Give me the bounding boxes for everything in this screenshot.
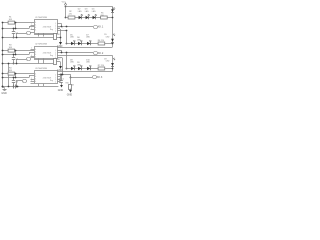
svg-text:R10: R10 xyxy=(66,82,69,84)
ground sym R10 xyxy=(69,90,72,93)
resistor R6 row2 xyxy=(98,42,105,45)
wire row3 xyxy=(66,68,113,70)
svg-text:10K: 10K xyxy=(9,70,13,72)
wire left bus xyxy=(2,23,4,88)
ground arrow 1 xyxy=(60,29,62,42)
svg-text:LED: LED xyxy=(86,37,90,39)
wire rail feed from U2 xyxy=(57,55,112,57)
svg-text:15: 15 xyxy=(58,28,60,30)
svg-text:LED: LED xyxy=(92,11,96,13)
svg-text:GND: GND xyxy=(1,92,7,95)
svg-text:1: 1 xyxy=(63,28,64,30)
IC U2 box xyxy=(35,47,58,59)
svg-text:4K7: 4K7 xyxy=(57,59,60,61)
svg-text:LED: LED xyxy=(106,61,110,63)
wire U1 vert x66 xyxy=(66,31,68,43)
svg-text:a: a xyxy=(23,81,24,83)
pin U3 QC xyxy=(57,79,60,81)
capacitor C1 xyxy=(13,28,15,31)
svg-text:Q: Q xyxy=(55,28,56,30)
svg-text:U2 74HC595N: U2 74HC595N xyxy=(35,44,47,46)
ground main xyxy=(3,89,7,91)
pin U2 QA xyxy=(57,50,61,52)
svg-text:Q: Q xyxy=(55,79,56,81)
wire R8 top xyxy=(34,34,54,36)
svg-text:LED: LED xyxy=(78,11,82,13)
pin U1 QA xyxy=(57,23,61,25)
svg-text:LED: LED xyxy=(106,36,110,38)
svg-text:220: 220 xyxy=(101,15,104,17)
net flag left 2 xyxy=(16,59,18,63)
pin U1 GND stubs xyxy=(38,33,40,37)
svg-text:Q: Q xyxy=(55,52,56,54)
wire mid row 2 xyxy=(2,54,30,56)
svg-text:LED: LED xyxy=(70,62,74,64)
wire rail return to U3 xyxy=(57,71,112,73)
svg-text:10K: 10K xyxy=(9,19,13,21)
wire gnd row 1 xyxy=(2,37,54,39)
svg-text:GND: GND xyxy=(67,93,73,96)
LED D6 row2 xyxy=(78,42,81,45)
svg-text:Reg: Reg xyxy=(50,55,53,57)
IC U3 box xyxy=(35,71,58,84)
net flag row2 xyxy=(94,52,98,55)
pin U1 QC xyxy=(57,28,60,30)
wire mid row 1 xyxy=(2,28,30,30)
svg-text:Reg: Reg xyxy=(50,80,53,82)
node row3 left xyxy=(66,68,68,70)
node row2 left xyxy=(66,43,68,45)
svg-text:LED: LED xyxy=(70,37,74,39)
wire gnd row 2 xyxy=(2,63,54,65)
svg-text:LED: LED xyxy=(77,64,81,66)
left stubs 1 xyxy=(31,25,35,27)
svg-text:R7 220: R7 220 xyxy=(98,65,104,67)
capacitor C3 xyxy=(13,77,15,80)
wire gnd row 3 xyxy=(2,86,58,88)
svg-text:GND: GND xyxy=(57,45,63,48)
IC U1 box xyxy=(35,20,58,34)
ground sym cap xyxy=(60,85,63,88)
pin U2 QC xyxy=(57,61,61,63)
svg-text:Q: Q xyxy=(55,77,56,79)
svg-text:Reg: Reg xyxy=(50,29,53,31)
wire bus to gnd xyxy=(3,87,5,89)
pin U1 QD xyxy=(57,30,66,32)
svg-text:4 Bit Shift: 4 Bit Shift xyxy=(43,26,52,29)
svg-text:LED: LED xyxy=(86,62,90,64)
wire row1 xyxy=(66,17,113,19)
node VCC junction xyxy=(65,6,67,8)
svg-text:GND: GND xyxy=(57,69,63,72)
LED D7 row2 xyxy=(87,42,90,45)
pin U2 QB wire to flag xyxy=(57,52,93,54)
svg-text:220: 220 xyxy=(69,14,72,16)
node row1 left xyxy=(65,17,67,19)
svg-text:a: a xyxy=(27,59,28,61)
node row3 right xyxy=(112,68,114,70)
wire rail return to U2 xyxy=(57,47,112,49)
resistor R2 row1 xyxy=(68,16,75,19)
svg-text:XK.2: XK.2 xyxy=(98,52,104,55)
diode D11 rail row2 xyxy=(111,39,114,42)
svg-text:Q: Q xyxy=(55,82,56,84)
node row2 right xyxy=(112,43,114,45)
left stubs 3 xyxy=(31,79,35,81)
wire R8 out xyxy=(57,37,61,39)
diode D12 rail row3 xyxy=(111,63,114,66)
node row1 right xyxy=(112,17,114,19)
pin U3 QD xyxy=(57,81,60,83)
pin U2 GND stubs xyxy=(38,58,40,63)
ground arrow 2 xyxy=(60,62,62,67)
net flag left 1 xyxy=(16,33,18,37)
resistor R9 vertical xyxy=(54,59,57,65)
pin U1 QB wire to flag xyxy=(57,26,93,28)
svg-text:Q: Q xyxy=(55,23,56,25)
svg-text:4K7: 4K7 xyxy=(57,34,60,36)
svg-text:R2: R2 xyxy=(69,11,71,13)
capacitor C2 xyxy=(13,54,15,57)
svg-text:U1 74HC595N: U1 74HC595N xyxy=(35,17,47,19)
svg-text:XK.3: XK.3 xyxy=(97,76,103,79)
node bus gnd-bus xyxy=(8,63,10,65)
svg-text:LED: LED xyxy=(77,39,81,41)
pin U3 QA wire xyxy=(57,74,70,76)
svg-text:U3 74HC595N: U3 74HC595N xyxy=(35,68,47,70)
wire top rail xyxy=(66,6,113,8)
svg-text:Q: Q xyxy=(55,30,56,32)
diode D10 top right xyxy=(111,9,114,12)
pin U2 QD xyxy=(57,57,62,59)
wire mid row 3 xyxy=(2,77,30,79)
pin U3 QB xyxy=(57,76,60,78)
wire right rail upper xyxy=(112,7,114,48)
LED D2 row1 xyxy=(79,16,82,19)
resistor R8 vertical xyxy=(54,34,57,40)
svg-text:a: a xyxy=(27,33,28,35)
svg-text:10K: 10K xyxy=(9,47,13,49)
capacitor C8 series bottom row xyxy=(13,85,15,89)
LED D4 row1 xyxy=(93,16,96,19)
svg-text:GND: GND xyxy=(58,89,64,92)
svg-text:LED: LED xyxy=(85,11,89,13)
LED D8 row3 xyxy=(71,67,74,70)
svg-text:4 Bit Shift: 4 Bit Shift xyxy=(43,52,52,55)
wire U2 vert x66 xyxy=(66,53,68,68)
wire R9 top xyxy=(34,59,54,61)
wire left VCC rail xyxy=(65,7,67,18)
wire row2 xyxy=(66,43,113,45)
resistor R5 row1 xyxy=(101,16,108,19)
left stubs 2 xyxy=(31,49,35,51)
svg-text:1K: 1K xyxy=(72,84,75,86)
net flag left 3 xyxy=(16,81,18,87)
svg-text:Q: Q xyxy=(55,50,56,52)
svg-text:XK.1: XK.1 xyxy=(98,25,104,28)
wire corner to flag3 xyxy=(70,74,72,77)
LED D3 row1 xyxy=(86,16,89,19)
wire U3 right vert xyxy=(60,74,62,82)
svg-text:Q: Q xyxy=(55,55,56,57)
net flag row3 xyxy=(93,76,97,79)
wire right rail lower xyxy=(112,56,114,72)
svg-text:R6 220: R6 220 xyxy=(98,40,104,42)
pin U3 GND stubs xyxy=(38,84,40,86)
svg-text:4 Bit Shift: 4 Bit Shift xyxy=(43,77,52,80)
LED D9 row3 xyxy=(78,67,81,70)
svg-text:Q: Q xyxy=(55,74,56,76)
wire gnd bus xyxy=(8,64,10,87)
svg-text:Q: Q xyxy=(55,26,56,28)
LED D10 row3 xyxy=(87,67,90,70)
net flag row1 xyxy=(94,26,98,29)
resistor R7 row3 xyxy=(98,67,105,70)
LED D5 row2 xyxy=(71,42,74,45)
